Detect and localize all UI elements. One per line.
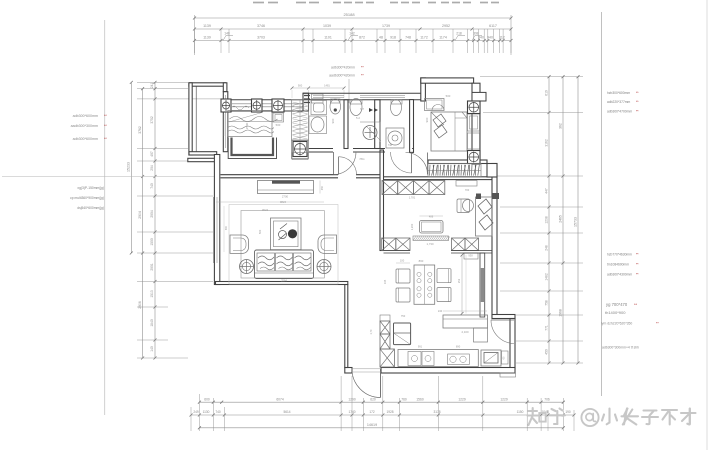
svg-text:249: 249 (193, 410, 199, 414)
svg-text:48: 48 (379, 36, 383, 40)
svg-text:241: 241 (150, 83, 154, 89)
svg-text:2904: 2904 (138, 211, 142, 219)
svg-text:252: 252 (457, 278, 461, 283)
svg-text:142: 142 (349, 32, 355, 36)
svg-text:706: 706 (544, 397, 550, 401)
svg-text:1130: 1130 (203, 410, 210, 414)
svg-text:1229: 1229 (458, 397, 466, 401)
svg-text:yg 700*470: yg 700*470 (606, 302, 628, 307)
svg-text:7811: 7811 (359, 158, 365, 161)
svg-text:740: 740 (150, 183, 154, 189)
svg-text:5614: 5614 (283, 410, 290, 414)
svg-text:620: 620 (370, 397, 376, 401)
svg-text:1481: 1481 (324, 83, 330, 87)
svg-text:447: 447 (544, 188, 548, 194)
svg-text:190: 190 (565, 410, 571, 414)
svg-text:100: 100 (400, 259, 405, 263)
svg-text:6117: 6117 (489, 24, 497, 28)
svg-text:tm1084600mm: tm1084600mm (607, 263, 629, 267)
svg-text:991: 991 (418, 346, 423, 349)
svg-text:adb300*420mm: adb300*420mm (331, 66, 355, 70)
svg-text:248: 248 (544, 245, 548, 251)
svg-text:1229: 1229 (500, 397, 508, 401)
svg-text:748: 748 (405, 36, 411, 40)
svg-text:362: 362 (558, 123, 562, 129)
svg-text:398: 398 (473, 32, 479, 36)
svg-text:**: ** (634, 302, 638, 307)
svg-text:940: 940 (487, 36, 493, 40)
svg-text:adb300*4700mm: adb300*4700mm (607, 110, 632, 114)
svg-text:2465: 2465 (558, 215, 562, 223)
svg-text:500: 500 (276, 123, 281, 127)
svg-text:750: 750 (401, 314, 406, 318)
svg-text:488: 488 (429, 215, 434, 219)
svg-text:3746: 3746 (257, 24, 265, 28)
svg-text:2952: 2952 (442, 24, 450, 28)
svg-text:2700: 2700 (282, 195, 289, 199)
svg-text:740: 740 (215, 410, 221, 414)
svg-text:1500: 1500 (245, 122, 249, 129)
svg-text:610: 610 (544, 90, 548, 96)
svg-text:6074: 6074 (276, 397, 284, 401)
svg-text:2564: 2564 (281, 279, 287, 283)
svg-text:918: 918 (390, 36, 396, 40)
svg-text:1968: 1968 (558, 309, 562, 317)
svg-text:900: 900 (425, 117, 429, 122)
svg-text:cp multi360*900mm(jg): cp multi360*900mm(jg) (70, 196, 104, 200)
svg-text:900: 900 (298, 83, 303, 87)
svg-text:500: 500 (446, 94, 451, 98)
svg-text:900: 900 (331, 118, 335, 123)
svg-text:1150: 1150 (517, 410, 524, 414)
svg-text:adb220*377mm: adb220*377mm (607, 100, 631, 104)
svg-text:872: 872 (359, 36, 365, 40)
svg-text:1482: 1482 (544, 273, 548, 281)
svg-text:1840: 1840 (150, 319, 154, 327)
svg-text:1,781: 1,781 (409, 196, 416, 200)
svg-text:497: 497 (150, 151, 154, 157)
svg-text:500: 500 (258, 229, 262, 234)
svg-text:760: 760 (401, 397, 407, 401)
svg-text:2,160: 2,160 (462, 330, 469, 334)
svg-text:25188: 25188 (343, 12, 355, 17)
svg-text:748: 748 (388, 144, 393, 147)
svg-text:600: 600 (204, 397, 210, 401)
svg-text:1,70: 1,70 (370, 329, 373, 334)
svg-text:aadb300*300mm: aadb300*300mm (71, 124, 98, 128)
svg-text:758: 758 (544, 300, 548, 306)
svg-text:700: 700 (465, 188, 470, 192)
svg-text:1101: 1101 (324, 36, 332, 40)
svg-text:2906: 2906 (138, 301, 142, 309)
svg-text:14619: 14619 (367, 423, 377, 427)
svg-text:450: 450 (321, 185, 324, 190)
svg-text:hzb300*600mm: hzb300*600mm (607, 91, 630, 95)
svg-text:747: 747 (360, 108, 365, 111)
svg-text:3824: 3824 (280, 200, 287, 204)
svg-text:adb300*300mm+4 tf shh: adb300*300mm+4 tf shh (602, 346, 639, 350)
svg-text:adb300*600mm: adb300*600mm (73, 137, 98, 141)
svg-text:15733: 15733 (573, 217, 577, 227)
svg-text:1739: 1739 (382, 24, 390, 28)
svg-text:1238: 1238 (544, 216, 548, 224)
svg-text:3178: 3178 (433, 410, 440, 414)
svg-text:690: 690 (456, 345, 461, 349)
svg-text:771: 771 (544, 325, 548, 331)
svg-text:218: 218 (456, 32, 462, 36)
svg-text:450: 450 (544, 349, 548, 355)
svg-text:3624: 3624 (262, 208, 269, 212)
svg-text:1174: 1174 (439, 36, 447, 40)
svg-text:3752: 3752 (150, 116, 154, 124)
svg-text:240: 240 (438, 309, 443, 313)
svg-text:15233: 15233 (126, 162, 130, 172)
svg-text:938: 938 (468, 254, 473, 258)
svg-text:adb300*600mm: adb300*600mm (73, 114, 98, 118)
svg-text:lym dzh220*620*350: lym dzh220*620*350 (601, 322, 632, 326)
svg-text:th1400*900: th1400*900 (605, 310, 626, 315)
svg-text:1,730: 1,730 (427, 242, 434, 246)
svg-text:hzb770*4630mm: hzb770*4630mm (607, 253, 632, 257)
svg-text:aadb300*420mm: aadb300*420mm (329, 74, 355, 78)
svg-text:1139: 1139 (203, 36, 211, 40)
svg-text:204: 204 (150, 165, 154, 171)
svg-text:3162: 3162 (544, 139, 548, 147)
svg-text:140: 140 (150, 346, 154, 352)
svg-text:2901: 2901 (150, 263, 154, 271)
svg-text:1,200: 1,200 (410, 223, 414, 230)
svg-text:1513: 1513 (150, 290, 154, 298)
svg-text:5.2: 5.2 (356, 116, 360, 120)
svg-text:1039: 1039 (323, 24, 331, 28)
svg-text:900: 900 (225, 225, 228, 230)
svg-text:140: 140 (224, 32, 230, 36)
svg-text:340: 340 (478, 36, 484, 40)
svg-text:1928: 1928 (386, 410, 393, 414)
svg-text:1139: 1139 (203, 24, 211, 28)
svg-text:1500: 1500 (150, 238, 154, 246)
svg-text:adb300*4300mm: adb300*4300mm (607, 273, 632, 277)
svg-text:3762: 3762 (138, 126, 142, 134)
svg-text:1172: 1172 (420, 36, 428, 40)
svg-text:860: 860 (419, 259, 424, 263)
svg-text:1560: 1560 (416, 397, 424, 401)
svg-text:2904: 2904 (150, 210, 154, 218)
svg-text:3703: 3703 (257, 36, 265, 40)
svg-text:xg(3)P-150mm(jg): xg(3)P-150mm(jg) (77, 186, 104, 190)
svg-text:dsj540*600mm(jg): dsj540*600mm(jg) (77, 206, 104, 210)
svg-text:112: 112 (499, 36, 505, 40)
svg-text:172: 172 (369, 410, 375, 414)
svg-text:135: 135 (383, 279, 387, 284)
